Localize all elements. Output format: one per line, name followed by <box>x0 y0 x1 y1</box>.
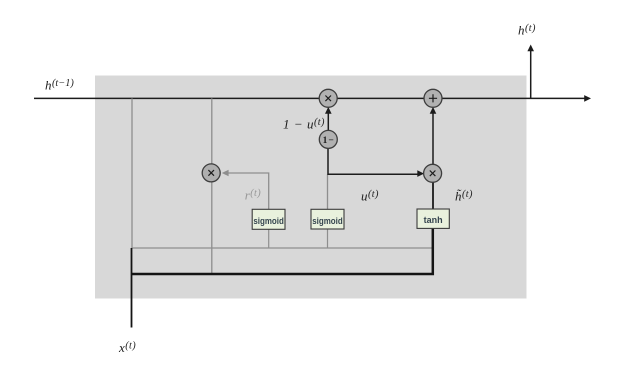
wire gray gate feed horizontal <box>131 247 433 249</box>
svg-text:sigmoid: sigmoid <box>253 216 284 226</box>
arrowhead h(t) output <box>527 45 534 52</box>
arrowhead into adder <box>430 107 437 114</box>
svg-text:sigmoid: sigmoid <box>312 216 343 226</box>
wire candidate multiply up to adder <box>432 113 434 165</box>
wire main h(t-1) horizontal line <box>34 97 586 99</box>
svg-text:h(t−1): h(t−1) <box>45 78 74 93</box>
op forget multiply circle <box>319 89 337 107</box>
wire x(t) input vertical <box>131 248 133 328</box>
op adder circle <box>424 89 442 107</box>
wire u(t) black elbow to candidate multiply <box>328 149 419 175</box>
arrowhead main line right <box>584 95 591 102</box>
wire thick tanh input elbow <box>132 229 433 275</box>
arrowhead into forget multiply <box>325 107 332 114</box>
op reset multiply circle <box>202 164 220 182</box>
wire h(t) output vertical <box>530 51 532 99</box>
svg-text:1−: 1− <box>323 136 335 146</box>
box sigmoid R <box>252 209 285 229</box>
wire r(t) elbow from sigmoid R to reset multiply <box>228 173 269 210</box>
box tanh <box>417 209 449 228</box>
wire gray drop A (h to gates) <box>131 98 133 248</box>
op candidate multiply circle <box>424 164 442 182</box>
wire u(t) gray rise from sigmoid U <box>327 174 329 209</box>
wire gray drop B (h to reset multiply) <box>211 98 213 273</box>
svg-text:tanh: tanh <box>424 215 443 225</box>
box sigmoid U <box>311 209 344 229</box>
wire tanh to candidate multiply <box>432 182 434 209</box>
cell body background <box>95 76 527 299</box>
arrowhead r(t) into reset multiply <box>222 170 229 177</box>
wire sigmoid R drop to feed <box>268 229 270 248</box>
svg-text:h(t): h(t) <box>518 23 536 38</box>
wire one-minus to forget multiply <box>327 113 329 132</box>
wire sigmoid U drop to feed <box>327 229 329 248</box>
op one-minus circle <box>319 130 337 148</box>
svg-text:x(t): x(t) <box>118 340 136 355</box>
arrowhead u(t) into candidate multiply <box>417 170 424 177</box>
